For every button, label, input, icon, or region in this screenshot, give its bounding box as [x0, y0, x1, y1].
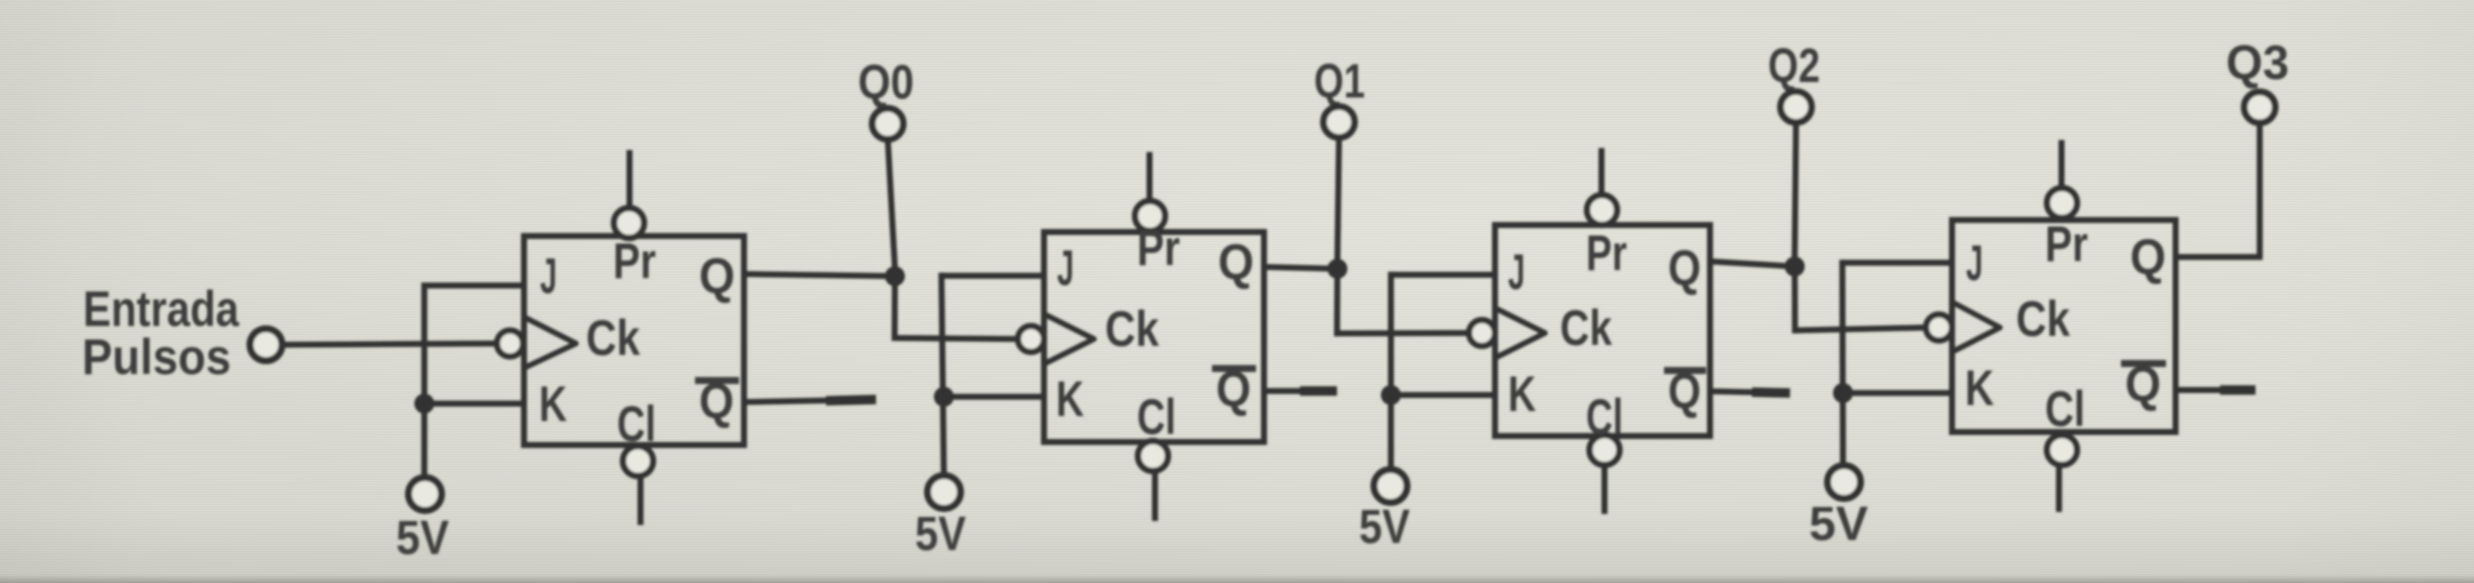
svg-text:Cl: Cl [1586, 389, 1623, 445]
wire U3 Q-bar stub [1710, 391, 1790, 393]
svg-text:Pulsos: Pulsos [82, 329, 231, 385]
junction dot node Q2 [1785, 257, 1805, 277]
wire Q2 terminal down to junction [1795, 122, 1796, 258]
wire U4 Q-bar stub thick end [2220, 385, 2256, 395]
wire junction Q1 down [1334, 269, 1340, 337]
wire U4 J-K tie vertical [1839, 260, 1846, 468]
svg-text:Pr: Pr [1586, 225, 1627, 281]
U4 clear bubble [2047, 435, 2077, 465]
svg-text:Pr: Pr [1137, 220, 1180, 276]
svg-text:Q2: Q2 [1768, 40, 1820, 93]
U2 clock edge-trigger triangle [1044, 314, 1094, 364]
wire U2 Q output [1264, 267, 1337, 269]
flip-flop U3 body [1495, 225, 1710, 436]
wire Q1 terminal down to junction [1337, 137, 1339, 261]
svg-text:Ck: Ck [1560, 300, 1612, 356]
wire U2 preset stem [1147, 152, 1153, 206]
wire node Q0 to U2 clock bubble [895, 338, 1019, 339]
wire U2 J input [941, 273, 1047, 279]
svg-text:Cl: Cl [2045, 381, 2085, 437]
svg-text:Ck: Ck [2016, 291, 2070, 347]
svg-text:J: J [540, 248, 557, 304]
wire U1 J-K tie vertical [421, 283, 427, 481]
svg-text:Pr: Pr [613, 233, 656, 289]
node Q3 terminal [2244, 92, 2275, 123]
wire U4 J input [1842, 260, 1955, 266]
wire U2 K input [944, 394, 1047, 400]
U4 preset bubble [2047, 188, 2077, 218]
wire U2 clear stem [1152, 470, 1158, 521]
wire U3 clear stem [1602, 464, 1608, 514]
wire U3 Q output [1710, 261, 1795, 266]
U3 clear bubble [1590, 435, 1620, 465]
node Q2 terminal [1781, 92, 1812, 123]
svg-text:J: J [1508, 244, 1525, 300]
svg-text:Q1: Q1 [1314, 55, 1365, 108]
wire Q0 terminal down to junction [888, 138, 895, 268]
U3 clock inversion bubble [1469, 320, 1495, 346]
U1 pin label Q-bar [695, 377, 739, 384]
svg-text:Ck: Ck [1105, 301, 1159, 357]
power terminal 5V for U1 [409, 478, 442, 511]
power terminal 5V for U2 [928, 476, 961, 509]
wire U1 preset stem [627, 150, 633, 213]
wire junction Q0 down [892, 276, 898, 341]
svg-text:Q: Q [699, 373, 734, 429]
wire U2 J-K tie vertical [941, 273, 944, 478]
wire node Q2 to U4 clock bubble [1795, 328, 1928, 331]
svg-text:K: K [1056, 371, 1084, 427]
node Q1 terminal [1324, 107, 1355, 138]
wire U2 Q-bar stub thick end [1300, 386, 1337, 396]
node Q0 terminal [872, 108, 903, 139]
wire U1 J input [424, 283, 527, 289]
svg-text:Cl: Cl [617, 396, 656, 452]
svg-text:Pr: Pr [2045, 216, 2088, 272]
wire U3 K input [1391, 392, 1498, 398]
junction dot node Q0 [885, 266, 905, 286]
svg-text:Q: Q [699, 248, 735, 304]
svg-text:Ck: Ck [586, 310, 640, 366]
svg-text:Q: Q [1668, 363, 1701, 419]
flip-flop U2 body [1044, 232, 1264, 442]
flip-flop U1 body [524, 236, 744, 445]
wire U4 Q-bar stub [2176, 387, 2256, 393]
wire node Q1 to U3 clock bubble [1337, 330, 1470, 336]
wire U3 J input [1391, 272, 1498, 278]
U2 clock inversion bubble [1018, 326, 1044, 352]
svg-text:K: K [1965, 360, 1994, 416]
wire U4 clear stem [2056, 464, 2062, 512]
U3 preset bubble [1587, 195, 1617, 225]
wire U1 clear stem [638, 475, 644, 525]
input terminal (Entrada Pulsos) [250, 329, 282, 361]
svg-text:J: J [1966, 235, 1983, 291]
svg-text:K: K [539, 376, 567, 432]
wire U4 K input [1843, 390, 1955, 396]
wire U4 Q riser to Q3 [2257, 122, 2263, 260]
svg-text:Q0: Q0 [858, 57, 914, 110]
wire U1 Q output [744, 274, 895, 276]
svg-text:Q: Q [1216, 361, 1251, 417]
wire input terminal to U1 clock bubble [281, 344, 498, 345]
U2 pin label Q-bar [1212, 365, 1256, 372]
flip-flop U4 body [1952, 220, 2176, 432]
wire U4 Q output [2176, 254, 2260, 260]
junction dot U1 K tie [414, 394, 434, 414]
svg-text:J: J [1057, 240, 1074, 296]
svg-text:K: K [1508, 366, 1536, 422]
wire U2 Q-bar stub [1264, 388, 1337, 394]
U2 clear bubble [1138, 441, 1168, 471]
wire U1 Q-bar stub [744, 400, 876, 403]
svg-text:Q3: Q3 [2226, 37, 2289, 90]
wire U3 J-K tie vertical [1388, 272, 1394, 472]
svg-text:Q: Q [1218, 234, 1254, 290]
U4 clock edge-trigger triangle [1952, 302, 2000, 352]
junction dot node Q1 [1327, 259, 1347, 279]
wire U1 K input [424, 401, 527, 407]
U1 clock inversion bubble [497, 331, 523, 357]
wire U3 Q-bar stub thick end [1752, 387, 1790, 397]
junction dot U4 K tie [1833, 383, 1853, 403]
junction dot U2 K tie [934, 387, 954, 407]
wire U3 preset stem [1599, 148, 1605, 200]
U1 clear bubble [623, 446, 653, 476]
wire junction Q2 down [1792, 267, 1798, 334]
U3 pin label Q-bar [1664, 367, 1706, 374]
svg-text:Q: Q [2130, 229, 2166, 285]
wire U4 preset stem [2059, 140, 2065, 191]
U1 preset bubble [614, 208, 644, 238]
svg-text:Q: Q [1668, 240, 1701, 296]
U2 preset bubble [1135, 201, 1165, 231]
power terminal 5V for U3 [1374, 470, 1407, 503]
power terminal 5V for U4 [1828, 466, 1861, 499]
U3 clock edge-trigger triangle [1495, 308, 1545, 358]
U1 clock edge-trigger triangle [524, 317, 576, 368]
svg-text:Cl: Cl [1137, 389, 1176, 445]
svg-text:Q: Q [2125, 356, 2161, 412]
junction dot U3 K tie [1381, 385, 1401, 405]
wire U1 Q-bar stub thick end [826, 400, 876, 401]
U4 pin label Q-bar [2121, 360, 2166, 367]
input label 'Entrada Pulsos' [82, 281, 240, 385]
U4 clock inversion bubble [1926, 315, 1952, 341]
